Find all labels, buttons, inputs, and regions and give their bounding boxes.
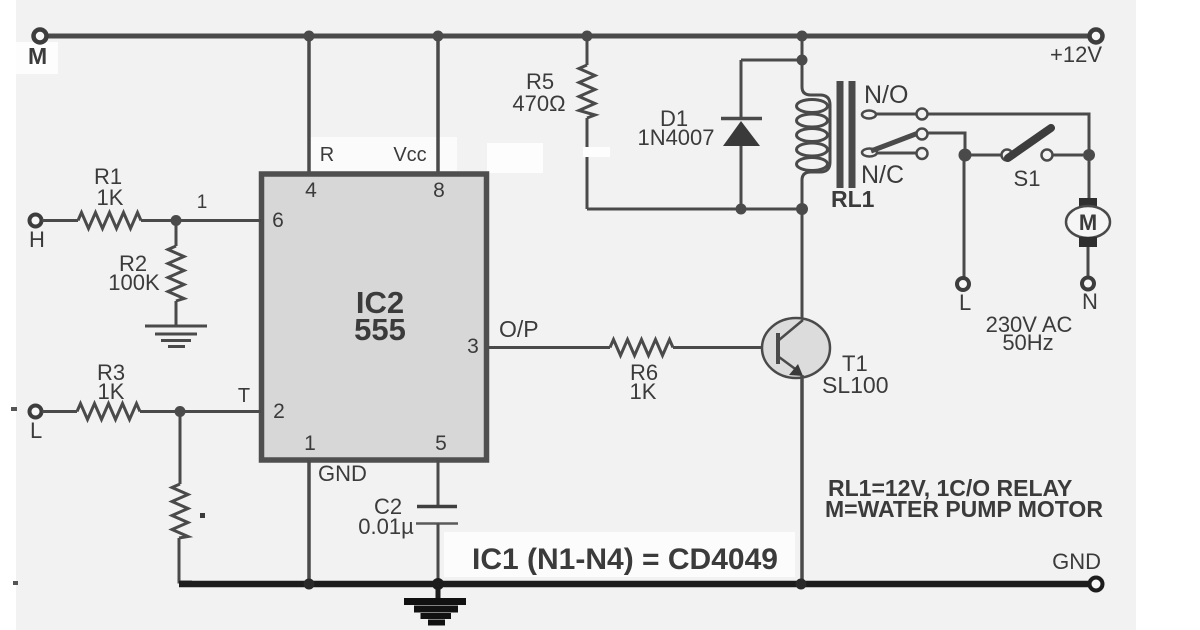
wire pole contact to L junction xyxy=(928,133,965,150)
svg-text:SL100: SL100 xyxy=(822,372,889,398)
wire rail to IC2 pin 8 xyxy=(436,36,440,172)
wire junction to S1 xyxy=(965,154,1001,157)
wire R1 to IC2 pin 6 xyxy=(141,219,261,222)
terminal L (230V line) xyxy=(957,278,969,290)
svg-text:4: 4 xyxy=(305,179,317,202)
wire rail to R5 xyxy=(586,36,589,65)
svg-text:R: R xyxy=(320,144,334,166)
junction D1 top / coil xyxy=(797,55,808,66)
stray dot mark xyxy=(200,513,205,518)
resistor R6 xyxy=(610,340,673,356)
wire N/C lead xyxy=(877,152,916,155)
wire junction to R4 xyxy=(179,412,182,485)
wire N/O contact to motor junction xyxy=(928,114,1089,155)
switch S1 xyxy=(1002,150,1013,161)
svg-text:RL1: RL1 xyxy=(831,186,875,212)
ground under R2 xyxy=(145,326,207,347)
svg-text:+12V: +12V xyxy=(1050,42,1102,67)
svg-text:L: L xyxy=(30,418,42,443)
junction pole / L / S1 xyxy=(959,149,972,162)
svg-text:6: 6 xyxy=(272,209,284,232)
svg-text:N/O: N/O xyxy=(864,81,908,109)
svg-text:1N4007: 1N4007 xyxy=(637,125,714,150)
wire D1 cathode to relay coil top xyxy=(741,59,802,62)
wire junction to motor xyxy=(1088,155,1091,198)
node 1 junction xyxy=(171,215,182,226)
wire N/O lead xyxy=(876,113,916,116)
svg-text:N: N xyxy=(1082,289,1098,314)
svg-text:Vcc: Vcc xyxy=(393,144,426,166)
svg-text:1K: 1K xyxy=(98,379,125,404)
diode D1 1N4007 xyxy=(740,60,743,120)
junction coil bottom / collector xyxy=(796,203,808,215)
wire L to R3 xyxy=(42,410,77,413)
contact pole xyxy=(917,129,928,140)
svg-text:IC1 (N1-N4) = CD4049: IC1 (N1-N4) = CD4049 xyxy=(472,543,778,576)
svg-text:50Hz: 50Hz xyxy=(1002,330,1053,355)
resistor R2 xyxy=(168,246,184,301)
wire R4 to ground rail xyxy=(179,538,192,582)
junction rail / pin 4 xyxy=(304,31,315,42)
svg-text:S1: S1 xyxy=(1014,166,1041,191)
wire T1 emitter to ground rail xyxy=(800,375,804,582)
relay N/O fixed lead xyxy=(862,111,876,119)
ground symbol (main) xyxy=(404,587,466,623)
wire relay coil to T1 collector xyxy=(801,209,804,322)
IC U2 555 timer body xyxy=(262,174,487,460)
resistor R1 xyxy=(78,213,141,229)
wire ground bottom rail xyxy=(179,581,1090,588)
resistor R4 (unlabeled) xyxy=(172,484,188,538)
svg-text:8: 8 xyxy=(433,179,445,202)
svg-text:2: 2 xyxy=(273,400,285,423)
terminal L (sensor low) xyxy=(30,406,42,418)
wire IC2 pin 1 to ground rail xyxy=(307,460,311,582)
wire R5 down to D1 node xyxy=(586,118,589,209)
svg-text:1: 1 xyxy=(304,432,316,455)
stray mark left edge bottom xyxy=(13,581,18,585)
svg-text:M=WATER PUMP MOTOR: M=WATER PUMP MOTOR xyxy=(825,496,1103,522)
junction emitter / rail xyxy=(796,579,807,590)
terminal H xyxy=(30,215,42,227)
stray mark left edge xyxy=(11,407,17,411)
relay common lead xyxy=(862,149,877,157)
contact N/O xyxy=(917,109,928,120)
relay armature xyxy=(871,134,917,152)
svg-text:555: 555 xyxy=(354,312,406,347)
wire C2 to ground rail xyxy=(437,524,440,583)
resistor R3 xyxy=(77,404,140,420)
resistor R5 xyxy=(579,65,595,118)
wire junction to terminal L xyxy=(963,155,966,278)
svg-text:M: M xyxy=(28,43,47,69)
wire R6 to T1 base xyxy=(673,346,778,349)
svg-text:GND: GND xyxy=(318,461,367,486)
motor M xyxy=(1079,198,1097,208)
wire S1 to motor junction xyxy=(1053,154,1083,157)
svg-text:100K: 100K xyxy=(108,270,160,295)
terminal GND xyxy=(1090,578,1103,591)
junction rail / R5 xyxy=(582,31,593,42)
terminal M xyxy=(34,30,47,43)
wire R3 to IC2 pin 2 xyxy=(140,410,261,413)
wire IC2 pin 3 output to R6 xyxy=(489,346,610,349)
wire motor to terminal N xyxy=(1087,247,1090,277)
wire H to R1 xyxy=(42,219,78,222)
svg-text:1: 1 xyxy=(197,192,208,213)
svg-text:GND: GND xyxy=(1052,549,1101,574)
capacitor C2 xyxy=(417,505,457,509)
wire R2 to ground xyxy=(175,301,178,325)
junction pin1 / rail xyxy=(304,579,315,590)
svg-text:O/P: O/P xyxy=(499,316,539,342)
node T junction xyxy=(175,406,186,417)
svg-text:470Ω: 470Ω xyxy=(512,91,565,116)
svg-text:N/C: N/C xyxy=(861,161,904,189)
svg-text:1K: 1K xyxy=(630,379,657,404)
junction rail / relay coil xyxy=(797,31,808,42)
svg-text:L: L xyxy=(959,290,971,315)
terminal +12V xyxy=(1090,30,1103,43)
wire IC2 pin 5 to C2 xyxy=(437,460,440,505)
svg-text:5: 5 xyxy=(435,432,447,455)
junction N/O / S1 / motor xyxy=(1083,149,1095,161)
relay core bars xyxy=(837,81,844,188)
svg-text:M: M xyxy=(1079,210,1097,235)
contact N/C xyxy=(917,148,928,159)
junction rail / pin 8 xyxy=(433,31,444,42)
svg-text:3: 3 xyxy=(467,335,479,358)
junction C2 / rail xyxy=(432,578,444,590)
transistor T1 xyxy=(762,318,830,378)
wire rail to IC2 pin 4 xyxy=(307,36,311,172)
junction D1 anode / bottom bus xyxy=(736,204,747,215)
svg-text:0.01µ: 0.01µ xyxy=(358,514,414,539)
terminal N (230V neutral) xyxy=(1082,278,1094,290)
relay RL1 coil xyxy=(801,36,804,62)
svg-text:1K: 1K xyxy=(97,185,124,210)
svg-text:T: T xyxy=(238,385,250,407)
wire node 1 to R2 xyxy=(175,221,178,247)
svg-text:H: H xyxy=(29,227,45,252)
wire +12V top rail xyxy=(47,34,1089,39)
wire R5/D1/relay bottom bus xyxy=(587,208,802,211)
